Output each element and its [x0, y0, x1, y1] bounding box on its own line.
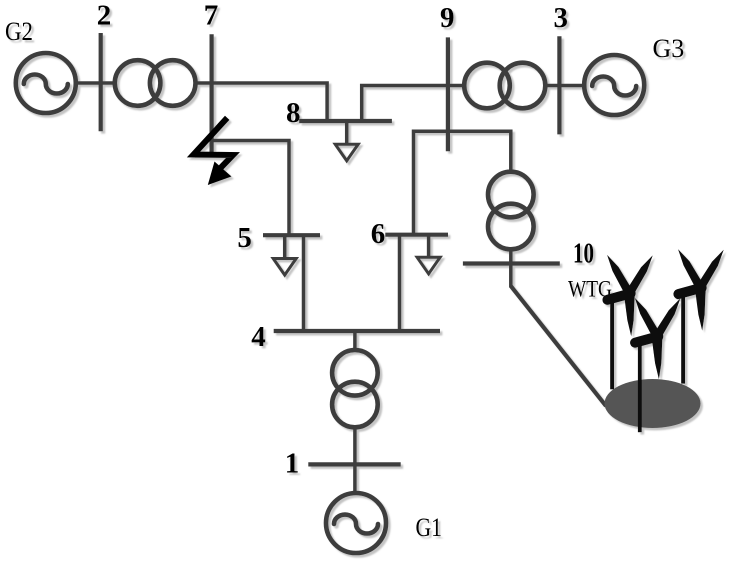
generator G2 — [16, 53, 76, 113]
svg-text:3: 3 — [554, 2, 569, 34]
bus 2 — [99, 33, 103, 131]
wire bus 9 branch to bus 6 and WTG transformer — [414, 131, 511, 234]
svg-text:10: 10 — [573, 239, 594, 270]
svg-text:8: 8 — [286, 97, 301, 129]
bus 4 — [274, 329, 440, 333]
wire T3 to bus 3 to G3 — [544, 84, 584, 88]
bus 6 — [385, 233, 448, 237]
bus 10 — [463, 261, 560, 265]
svg-text:7: 7 — [204, 0, 219, 32]
wind turbine 2 — [635, 298, 681, 432]
transformer T1 — [332, 350, 378, 427]
wind farm collector ellipse — [605, 379, 701, 428]
wire bus 1 to G1 — [353, 464, 357, 493]
transformer T2 — [115, 60, 196, 106]
svg-text:6: 6 — [371, 218, 386, 250]
ground at bus 8 — [335, 121, 358, 161]
wire T1 to bus 1 — [353, 426, 357, 464]
wire bus 6 to bus 4 — [398, 235, 402, 331]
fault lightning bolt at bus 7 — [194, 118, 233, 185]
bus 3 — [557, 36, 561, 134]
bus 5 — [263, 233, 320, 237]
bus 1 — [308, 462, 400, 466]
wire bus 9 to T3 — [448, 84, 466, 88]
bus 9 — [446, 37, 450, 151]
svg-text:1: 1 — [285, 448, 300, 480]
wire bus 8 up to line toward bus 9 — [362, 86, 448, 122]
wire bus 7 to bus 5 (faulted line) — [212, 141, 289, 236]
ground at bus 5 — [273, 235, 296, 275]
svg-text:G1: G1 — [416, 513, 443, 542]
svg-text:G3: G3 — [653, 34, 685, 63]
svg-text:G2: G2 — [5, 17, 33, 46]
wire T2 to bus 7 and corner down to bus 8 — [196, 83, 327, 121]
svg-text:4: 4 — [251, 321, 266, 353]
wire bus 5 to bus 4 — [302, 235, 306, 331]
generator G1 — [326, 493, 386, 553]
wire G2 to bus 2 — [76, 81, 117, 85]
bus 8 — [299, 119, 392, 123]
ground at bus 6 — [417, 235, 440, 274]
wind turbine 3 — [678, 249, 724, 383]
transformer T4 (WTG step-up) — [488, 172, 534, 250]
wire bus 10 to wind farm (diagonal) — [511, 286, 606, 406]
wire T4 to bus 10 — [509, 248, 513, 287]
wind turbine 1 — [607, 255, 653, 389]
svg-text:9: 9 — [440, 2, 455, 34]
bus 7 — [210, 34, 214, 156]
wire bus 4 to T1 — [353, 331, 357, 352]
generator G3 — [584, 55, 644, 115]
svg-text:5: 5 — [237, 222, 252, 254]
svg-text:2: 2 — [97, 0, 112, 32]
transformer T3 — [464, 63, 545, 109]
